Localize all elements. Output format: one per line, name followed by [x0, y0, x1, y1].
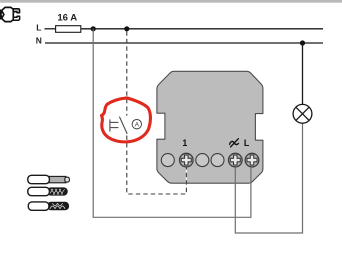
wire L feed down and to terminal L: [93, 29, 251, 218]
svg-text:N: N: [36, 36, 42, 46]
junction dot on N (feed to lamp): [300, 40, 305, 45]
wire lamp return: output terminal to lamp bottom: [235, 123, 302, 233]
dashed wire: L dot down to switch: [126, 31, 128, 115]
svg-text:L: L: [36, 22, 41, 32]
junction dot on L (feed to switch, dashed): [124, 26, 129, 31]
svg-text:16 A: 16 A: [57, 13, 77, 24]
wire N down to lamp top: [302, 43, 304, 104]
cable icon 1 (solid conductor with ferrule): [28, 175, 70, 183]
switch A (wall pushbutton symbol): [110, 117, 127, 134]
cable icon 3 (stranded twisted conductor): [28, 202, 68, 210]
junction dot on L (feed to device): [91, 26, 96, 31]
terminal label output (dimmer wave symbol): [230, 139, 239, 147]
screw terminal L: [245, 153, 259, 167]
screw terminal 1: [180, 153, 194, 167]
dimmer insert U1 (device body): [157, 71, 263, 183]
wire L line (right of fuse): [81, 28, 323, 30]
wire N line: [45, 42, 323, 44]
red annotation circle (hand drawn): [102, 98, 151, 142]
plain terminal hole 2: [196, 154, 209, 167]
mains plug icon: [0, 7, 20, 21]
svg-text:L: L: [244, 138, 250, 148]
lamp E1: [293, 104, 312, 123]
fuse F1 16A: [56, 26, 81, 33]
plain terminal hole 3: [211, 154, 224, 167]
wire L line (left of fuse): [45, 28, 56, 30]
top toolbar edge strip: [0, 0, 342, 3]
plain terminal hole 1: [161, 154, 174, 167]
cable icon 2 (braided conductor): [28, 187, 67, 195]
circled A: [132, 120, 141, 129]
screw terminal output: [229, 153, 243, 167]
dashed wire: switch down, right, up to terminal 1 (white gap underlay inside device): [185, 167, 187, 184]
svg-text:1: 1: [182, 138, 187, 148]
